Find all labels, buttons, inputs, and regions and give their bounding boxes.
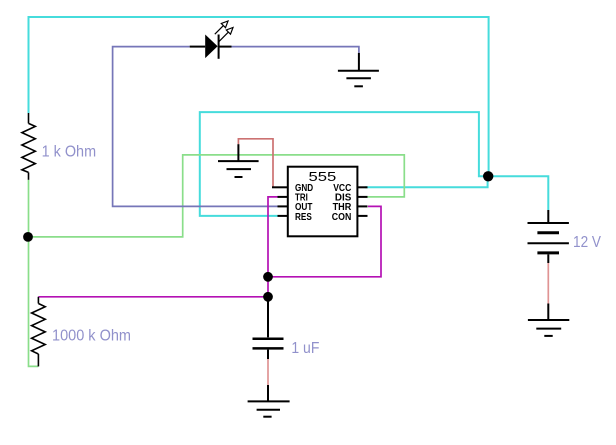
node C junction dot — [263, 272, 273, 282]
wire green node B down to 1000k bottom — [29, 237, 39, 367]
ground G3 bottom middle — [248, 385, 290, 417]
ground G1 near IC — [218, 144, 259, 177]
wire blue OUT pin to LED anode — [113, 47, 278, 207]
wire magenta node C to node D — [267, 277, 269, 297]
resistor R1 1 k Ohm — [22, 113, 35, 180]
node B junction dot — [23, 232, 33, 242]
battery V1 — [528, 210, 569, 263]
svg-text:12 V: 12 V — [573, 234, 601, 251]
wire Vcc top horizontal — [29, 17, 489, 176]
pin stub VCC — [357, 186, 367, 188]
wire magenta TRI pin to node C — [268, 197, 278, 277]
svg-text:1 uF: 1 uF — [291, 340, 319, 357]
ground G4 bottom right — [528, 304, 569, 336]
pin stub RES — [278, 215, 288, 217]
wire magenta node D to 1000k top — [38, 296, 268, 298]
pin stub DIS — [357, 196, 367, 198]
resistor R2 1000 k Ohm — [32, 297, 46, 367]
svg-text:RES: RES — [295, 211, 312, 223]
pin stub CON — [357, 215, 367, 217]
pin stub GND — [272, 186, 288, 188]
svg-text:1 k Ohm: 1 k Ohm — [42, 144, 97, 161]
capacitor C1 — [253, 297, 284, 359]
pin stub TRI — [278, 196, 288, 198]
node D junction dot — [263, 292, 273, 302]
wire red battery minus to ground G4 — [547, 263, 549, 304]
svg-text:CON: CON — [332, 211, 352, 223]
node A junction dot — [483, 171, 493, 181]
wire magenta THR pin to node C — [268, 206, 381, 276]
wire Vcc box around IC (RES pin to node A) — [200, 112, 489, 216]
wire green 1k bottom to node B — [28, 180, 30, 237]
wire blue LED cathode to ground G2 — [232, 47, 359, 53]
op-amp U1 555 timer body — [288, 167, 358, 237]
wire red capacitor bottom to ground G3 — [267, 359, 269, 385]
pin stub THR — [357, 205, 367, 207]
LED D1 — [190, 21, 233, 59]
wire green node B to DIS pin — [29, 155, 405, 237]
ground G2 top middle — [338, 53, 379, 86]
pin stub OUT — [278, 205, 288, 207]
wire node A to battery top — [488, 176, 548, 210]
wire red GND pin to ground G1 — [238, 139, 273, 188]
svg-text:1000 k Ohm: 1000 k Ohm — [52, 328, 131, 345]
wire VCC pin to node A — [365, 176, 488, 187]
